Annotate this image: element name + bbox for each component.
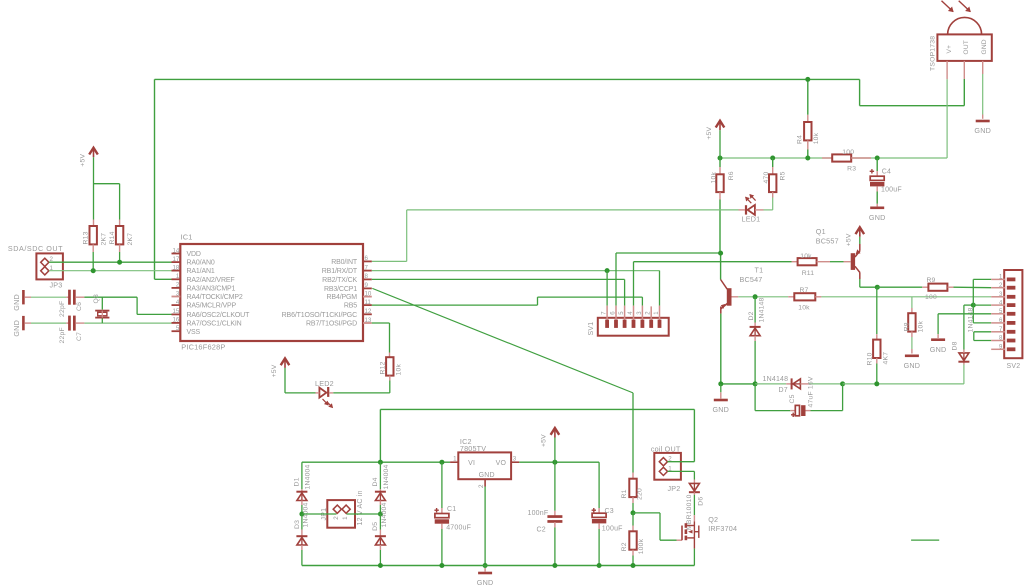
SV1 pin 7 [606, 306, 608, 320]
svg-text:C7: C7 [76, 332, 83, 341]
svg-text:GND: GND [479, 472, 495, 479]
svg-text:10k: 10k [711, 172, 718, 184]
IR receiver V4 TSOP1738 [937, 34, 991, 61]
svg-text:4700uF: 4700uF [446, 525, 471, 532]
wire down to JP2 pin2 [693, 409, 695, 461]
wire RB5 jog row [538, 296, 643, 298]
svg-text:R10: R10 [867, 352, 874, 365]
junction IC2 GND on rail [483, 563, 488, 568]
svg-text:GND: GND [974, 126, 991, 135]
wire drop to SV1 pin7 [606, 271, 608, 306]
wire bridge + rail [302, 461, 450, 463]
junction R13 on pin18 net [91, 268, 96, 273]
wire R4 bottom [807, 150, 809, 159]
svg-text:RA7/OSC1/CLKIN: RA7/OSC1/CLKIN [187, 321, 242, 328]
wire C5 right up [842, 384, 844, 411]
junction SV2 pins 1/4/6 [971, 303, 976, 308]
wire D6 to Q2 drain [693, 495, 695, 515]
svg-text:RB1/RX/DT: RB1/RX/DT [322, 268, 358, 275]
wire R1 bottom [632, 503, 634, 513]
wire RB3 diagonal to R1 [372, 288, 633, 393]
wire drop to SV1 pin3 [641, 297, 643, 306]
IC2 pin 2 GND [484, 479, 486, 486]
connector SV1 [598, 318, 669, 336]
connector SV2 [1004, 270, 1022, 358]
SV1 pin 4 [633, 306, 635, 320]
wire C2 bottom [554, 528, 556, 566]
wire Q1 base row to R11 [634, 261, 792, 263]
svg-text:R6: R6 [728, 171, 735, 180]
svg-text:16: 16 [173, 317, 180, 324]
wire IC2 GND down [484, 487, 486, 566]
svg-text:2K7: 2K7 [101, 233, 108, 246]
wire R4 top [807, 79, 809, 114]
wire C3 top [598, 462, 600, 508]
wire C7 to IC1 pin16 [84, 322, 171, 324]
svg-text:GND: GND [904, 361, 921, 370]
svg-text:LED1: LED1 [742, 215, 761, 224]
wire down to R12 [389, 323, 391, 353]
svg-text:100uF: 100uF [602, 526, 623, 533]
wire bottom GND rail [302, 565, 695, 567]
svg-text:1N4004: 1N4004 [381, 502, 388, 527]
SV2 pin 3 [991, 296, 1005, 298]
diode D8 1N4148 [959, 353, 969, 361]
diode D2 1N4148 [750, 326, 761, 328]
junction R14 on pin17 net [117, 260, 122, 265]
svg-text:18: 18 [173, 264, 180, 271]
svg-text:GND: GND [12, 320, 21, 337]
svg-text:LED2: LED2 [315, 379, 334, 388]
svg-text:14: 14 [173, 247, 180, 254]
resistor R5 [769, 174, 776, 192]
wire gate jog [633, 512, 660, 514]
wire +5V to R13 [93, 157, 95, 219]
svg-text:3: 3 [637, 311, 643, 315]
svg-text:OUT: OUT [963, 40, 970, 55]
SV1 pin 3 [641, 306, 643, 320]
wire R11 to Q1 base [830, 261, 844, 263]
IC U1 PIC16F628P box [180, 244, 363, 341]
wire to SV2 pin4 [973, 304, 991, 306]
ground at SV2 pin5 [931, 338, 945, 341]
svg-text:4K7: 4K7 [882, 352, 889, 365]
junction C1 on + rail [439, 460, 444, 465]
wire RB0 riser [406, 210, 408, 262]
svg-text:5: 5 [999, 309, 1003, 315]
wire C1 top [441, 462, 443, 508]
wire to IC1 pin15 [137, 313, 171, 315]
svg-text:R11: R11 [802, 270, 815, 277]
wire T1 base to R7 [738, 296, 788, 298]
wire R5 top lead [772, 158, 774, 167]
wire to D2 [754, 297, 756, 323]
SV2 pin 7 [991, 331, 1005, 333]
svg-text:3: 3 [513, 456, 517, 463]
wire crystal top [101, 297, 103, 309]
wire SV2 tie vertical [972, 279, 974, 323]
svg-text:V+: V+ [946, 45, 953, 54]
svg-text:RA2/AN2/VREF: RA2/AN2/VREF [187, 277, 235, 284]
svg-text:2K7: 2K7 [127, 233, 134, 246]
wire LED1 to R5 corner [764, 209, 773, 211]
wire SV2 pin5 to GND [938, 313, 991, 315]
svg-text:RA1/AN1: RA1/AN1 [187, 268, 215, 275]
diode D6 MBR10010 [689, 483, 699, 491]
wire JP3 pin2 to IC1 pin17 [49, 261, 172, 263]
svg-text:+5V: +5V [79, 154, 86, 167]
wire GND to C7 [31, 322, 66, 324]
connector JP1 12V AC in [327, 500, 355, 528]
svg-text:RB2/TX/CK: RB2/TX/CK [322, 277, 357, 284]
svg-text:RA5/MCLR/VPP: RA5/MCLR/VPP [187, 303, 237, 310]
IC2 pin 1 [450, 461, 458, 463]
IC2 pin 3 [511, 461, 519, 463]
svg-text:17: 17 [173, 256, 180, 263]
svg-text:R8: R8 [904, 322, 911, 331]
junction R2 on GND rail [631, 563, 636, 568]
svg-text:R14: R14 [109, 231, 116, 244]
wire drop to SV1 pin6 [615, 253, 617, 306]
wire GND stub [720, 384, 722, 392]
svg-text:R1: R1 [621, 489, 628, 498]
svg-text:10k: 10k [396, 364, 403, 376]
svg-text:GND: GND [713, 405, 730, 414]
svg-text:100: 100 [842, 149, 854, 156]
wire drop to SV1 pin4 [633, 262, 635, 306]
svg-text:8: 8 [999, 336, 1003, 342]
svg-text:R12: R12 [379, 361, 386, 374]
svg-text:R4: R4 [797, 135, 804, 144]
wire drop to SV1 pin5 [624, 279, 626, 305]
svg-text:1N4004: 1N4004 [302, 502, 309, 527]
junction R4 top on OUT net [805, 77, 810, 82]
wire T1 collector row [616, 252, 721, 254]
junction C4 top [875, 156, 880, 161]
IC1 left pins [172, 253, 181, 255]
ground under R8 [905, 354, 919, 357]
ground under T1 [714, 399, 728, 402]
svg-text:1N4148: 1N4148 [759, 297, 766, 322]
svg-text:9: 9 [999, 345, 1003, 351]
wire R10 top [876, 287, 878, 334]
svg-text:100uF: 100uF [881, 186, 902, 193]
svg-text:D7: D7 [779, 387, 788, 394]
resistor R12 [386, 357, 393, 375]
svg-text:13: 13 [365, 317, 372, 324]
svg-text:+5V: +5V [846, 233, 853, 246]
resistor R14 [116, 226, 123, 244]
svg-text:D4: D4 [372, 477, 379, 486]
resistor R3 [832, 154, 851, 161]
wire +5V stem [554, 438, 556, 463]
svg-text:PIC16F628P: PIC16F628P [181, 342, 225, 351]
wire +5V stem [284, 368, 286, 393]
wire C4 bottom [876, 192, 878, 204]
wire RB1 row to SV1 [372, 270, 660, 272]
junction R1/R2/gate [631, 510, 636, 515]
svg-text:C4: C4 [882, 168, 891, 175]
resistor R13 [90, 226, 97, 244]
SV2 pin 4 [991, 304, 1005, 306]
junction R10 bottom [874, 381, 879, 386]
resistor R8 [908, 313, 915, 331]
resistor R6 [716, 174, 723, 192]
+5V supply above R13 [93, 149, 95, 158]
wire jog down [859, 79, 861, 105]
svg-text:6: 6 [610, 311, 616, 315]
wire +5V stem to bus [719, 130, 721, 158]
resistor R7 [794, 293, 815, 300]
svg-text:RB7/T1OSI/PGD: RB7/T1OSI/PGD [306, 321, 357, 328]
junction T1 collector node [718, 251, 723, 256]
wire jog down [136, 297, 138, 314]
wire riser to IC1 pin1 [154, 79, 156, 279]
wire SV2 pin7-pin8 tie [974, 331, 991, 333]
svg-text:10k: 10k [813, 132, 820, 144]
wire Q1 collector to R9 node [860, 286, 878, 288]
svg-text:C3: C3 [605, 508, 614, 515]
svg-text:JP2: JP2 [668, 484, 681, 493]
wire down to R14 [119, 184, 121, 220]
svg-text:47uF 16V: 47uF 16V [808, 376, 815, 407]
svg-text:D1: D1 [294, 477, 301, 486]
junction C3 on GND rail [597, 563, 602, 568]
diode D3 1N4004 [296, 535, 307, 537]
wire RB5 row [372, 304, 538, 306]
resistor R10 [873, 340, 880, 358]
wire C6 to pin15 jog [84, 296, 137, 298]
svg-text:Q1: Q1 [816, 227, 826, 236]
T1 emitter wire to GND rail [720, 314, 722, 384]
svg-text:2: 2 [646, 311, 652, 315]
wire GND rail left [721, 383, 755, 385]
svg-text:7805TV: 7805TV [460, 444, 486, 453]
svg-text:D5: D5 [372, 522, 379, 531]
svg-text:4: 4 [628, 311, 634, 315]
svg-text:10k: 10k [798, 305, 810, 312]
+5V supply at Q1 emitter [859, 228, 861, 237]
wire D1 to AC node [301, 505, 303, 514]
junction AC node left [299, 512, 304, 517]
svg-text:D6: D6 [698, 497, 705, 506]
wire R14 bottom [119, 252, 121, 262]
wire R10 bottom to GND rail [876, 364, 878, 384]
wire R2 bottom [632, 556, 634, 566]
wire C5 right [811, 410, 843, 412]
wire R8 bottom [911, 337, 913, 349]
svg-text:IRF3704: IRF3704 [708, 524, 737, 533]
svg-text:VSS: VSS [187, 329, 201, 336]
wire AC node to D3 [301, 514, 303, 530]
svg-text:JP3: JP3 [50, 280, 63, 289]
wire R12 bottom [389, 381, 391, 393]
wire D2 to GND rail [754, 341, 756, 384]
SV2 pin 9 [991, 348, 1005, 350]
+5V supply near LED2 [284, 359, 286, 368]
SV2 pin 8 [991, 340, 1005, 342]
svg-text:RB0/INT: RB0/INT [331, 259, 358, 266]
IR arrows into TSOP dome [942, 1, 954, 12]
wire LED2 to R12 [333, 392, 390, 394]
SV2 pin 1 [991, 278, 1005, 280]
svg-text:R7: R7 [799, 287, 808, 294]
svg-text:GND: GND [930, 345, 947, 354]
svg-text:R5: R5 [780, 171, 787, 180]
wire branch to R14 [94, 183, 120, 185]
svg-text:1: 1 [999, 275, 1003, 281]
svg-text:IC1: IC1 [181, 233, 193, 242]
+5V supply at regulator output [554, 429, 556, 438]
svg-text:D2: D2 [748, 311, 755, 320]
svg-text:6: 6 [999, 318, 1003, 324]
wire D5 to GND rail [379, 550, 381, 566]
svg-text:11: 11 [365, 299, 372, 306]
wire to D4 [379, 462, 381, 489]
svg-text:10k: 10k [800, 253, 812, 260]
capacitor C2 plates [547, 515, 562, 518]
wire RB3 PWM down to R1 [632, 393, 634, 473]
junction D4 column on + rail [378, 460, 383, 465]
LED LED1 [745, 205, 747, 214]
svg-text:BC557: BC557 [816, 237, 839, 246]
svg-text:22pF: 22pF [59, 327, 66, 343]
svg-text:R9: R9 [926, 277, 935, 284]
svg-text:SV1: SV1 [588, 322, 595, 336]
svg-text:470: 470 [763, 172, 770, 184]
svg-text:BC547: BC547 [740, 275, 763, 284]
svg-text:12 V AC in: 12 V AC in [357, 490, 364, 525]
wire to SV2 pin1 [973, 278, 991, 280]
wire R6 top lead [719, 158, 721, 167]
wire drop to SV1 pin1 [659, 271, 661, 306]
svg-text:RB3/CCP1: RB3/CCP1 [324, 286, 357, 293]
svg-text:Q3: Q3 [93, 294, 100, 303]
svg-text:1N4004: 1N4004 [383, 464, 390, 489]
wire +5V to LED2 [285, 392, 316, 394]
svg-text:5: 5 [619, 311, 625, 315]
ground below rail [478, 572, 492, 575]
wire GND rail right [843, 383, 964, 385]
wire JP1 pin1 to AC [347, 513, 381, 515]
wire R6 bottom to T1 collector node [719, 200, 721, 254]
ground left of C7 [22, 316, 25, 330]
svg-text:C2: C2 [537, 527, 546, 534]
wire R7 to SV2 pin3 [821, 296, 991, 298]
wire +12V rail to coil [380, 408, 694, 410]
wire C2 top [554, 462, 556, 511]
wire to TSOP OUT [860, 105, 965, 107]
junction T1 emitter / GND [718, 381, 723, 386]
svg-text:7: 7 [602, 311, 608, 315]
IC IC2 7805TV regulator [458, 452, 511, 479]
wire R5 bottom [772, 198, 774, 210]
svg-text:15: 15 [173, 308, 180, 315]
svg-text:Q2: Q2 [708, 515, 718, 524]
svg-text:R3: R3 [847, 166, 856, 173]
wire RB0 to LED1 [407, 209, 739, 211]
TSOP pin leads [946, 61, 948, 79]
svg-text:RA3/AN3/CMP1: RA3/AN3/CMP1 [187, 286, 236, 293]
svg-text:1N4148: 1N4148 [763, 376, 789, 383]
svg-text:R2: R2 [621, 542, 628, 551]
capacitor C6 [68, 290, 71, 305]
svg-text:10: 10 [365, 290, 372, 297]
svg-text:RB4/PGM: RB4/PGM [327, 294, 358, 301]
svg-text:GND: GND [12, 294, 21, 311]
diode D5 1N4004 [375, 535, 386, 537]
wire GND to C6 [31, 296, 66, 298]
svg-text:+5V: +5V [706, 127, 713, 140]
svg-text:10k: 10k [917, 321, 924, 333]
T1 base lead [732, 296, 739, 298]
svg-text:TSOP1738: TSOP1738 [930, 36, 937, 71]
junction R9/R10 [875, 285, 880, 290]
svg-text:GND: GND [981, 39, 988, 54]
wire Q1 collector down [859, 279, 861, 287]
wire to junction [964, 304, 973, 306]
wire RB5 jog [537, 297, 539, 305]
svg-text:VDD: VDD [187, 251, 201, 258]
ground left of C6 [22, 290, 25, 304]
wire C3 bottom [598, 529, 600, 566]
wire +5V bus [720, 157, 947, 159]
diode D1 1N4004 [296, 491, 307, 493]
junction +5V / C2 [552, 460, 557, 465]
svg-text:GND: GND [869, 213, 886, 222]
wire TSOP OUT net top run [155, 78, 860, 80]
wire JP2 pin2 to +12V riser [668, 461, 695, 463]
svg-text:VI: VI [468, 460, 475, 467]
svg-text:2: 2 [333, 516, 340, 520]
junction R5 top [770, 156, 775, 161]
wire D3 to GND rail [301, 550, 303, 566]
svg-text:C1: C1 [447, 506, 456, 513]
JP3 pin 2 [41, 258, 49, 266]
SV2 pin 5 [991, 313, 1005, 315]
SV1 pin 2 [650, 306, 652, 319]
svg-text:D3: D3 [294, 520, 301, 529]
wire TSOP V+ to +5V bus [946, 79, 948, 158]
diode D7 [791, 378, 793, 389]
wire GND rail up to D8 [963, 365, 965, 384]
SV1 pin 6 [615, 306, 617, 320]
svg-text:VO: VO [496, 460, 507, 467]
svg-text:12: 12 [365, 308, 372, 315]
wire D4 to AC node [379, 505, 381, 514]
junction C2 on GND rail [552, 563, 557, 568]
wire +5V to Q1 emitter [859, 237, 861, 244]
wire stub [911, 539, 939, 541]
svg-text:22pF: 22pF [59, 301, 66, 317]
wire down to bridge + rail [379, 409, 381, 462]
IC1 right pins [363, 260, 372, 262]
svg-text:+5V: +5V [541, 434, 548, 447]
junction R6 top [718, 156, 723, 161]
svg-text:1: 1 [342, 516, 349, 520]
resistor R2 [629, 531, 636, 549]
ground under C4 [870, 207, 884, 210]
wire into IC1 pin1 [155, 278, 172, 280]
svg-text:+5V: +5V [271, 364, 278, 377]
wire RB2 row [372, 278, 625, 280]
wire VO to C3 [519, 461, 599, 463]
resistor R1 [629, 479, 636, 497]
wire to SV2 pin6 [973, 322, 991, 324]
svg-text:4: 4 [999, 300, 1003, 306]
junction R4 bottom [805, 156, 810, 161]
wire D7 to right node [809, 383, 843, 385]
